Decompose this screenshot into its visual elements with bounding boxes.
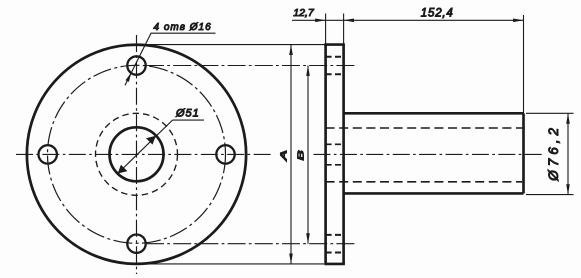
flange bottom edge — [324, 263, 345, 266]
flange side view right edge — [342, 45, 345, 264]
extension line shaft right top — [523, 15, 525, 113]
horizontal main centerline (right part through side view) — [314, 153, 544, 155]
leader Ø51 arrowhead upper right — [146, 136, 156, 145]
bolt hole right — [216, 145, 234, 163]
svg-text:4 отв Ø16: 4 отв Ø16 — [154, 22, 212, 33]
dimension 152.4 arrows — [344, 19, 524, 23]
center hole Ø51 — [110, 127, 164, 181]
dimension Ø76.2 arrows — [566, 113, 570, 194]
bolt circle (dash-dot) — [48, 65, 226, 243]
extension line shaft top right — [526, 112, 574, 114]
hidden shaft circle Ø76.2 (dashed) — [96, 113, 178, 195]
dimension A arrows — [289, 45, 293, 264]
shaft bottom edge — [344, 192, 524, 195]
leader Ø51: shelf — [173, 119, 205, 121]
extension line flange left top — [325, 14, 327, 45]
bolt hole bottom — [127, 235, 145, 253]
dimension A line — [290, 45, 292, 264]
dimension B line — [307, 66, 309, 244]
leader 4 holes: arrowhead — [126, 72, 132, 82]
flange top edge — [324, 43, 345, 46]
leader Ø51: diagonal diameter line — [118, 120, 173, 174]
bottom hole centerline extending to side view — [146, 243, 356, 245]
leader 4 holes: shelf — [151, 32, 216, 34]
top hole centerline extending to side view — [146, 65, 356, 67]
leader Ø51 arrowhead lower left — [118, 165, 128, 174]
dimension 152.4 line — [344, 19, 524, 21]
svg-text:Ø51: Ø51 — [175, 108, 200, 120]
projection line bottom tangent — [150, 263, 324, 265]
svg-text:152,4: 152,4 — [421, 7, 454, 19]
dimension 12.7 line — [292, 19, 344, 21]
leader 4 holes: diagonal — [125, 33, 151, 85]
extension line flange right top — [343, 14, 345, 45]
extension line shaft bottom right — [526, 194, 574, 196]
hidden bolt hole lines (bottom pair) — [326, 235, 344, 253]
flange side view left edge — [324, 45, 327, 264]
horizontal main centerline (left of letters A,B) — [16, 153, 272, 155]
svg-text:A: A — [279, 150, 288, 162]
svg-text:Ø76,2: Ø76,2 — [546, 124, 561, 182]
bolt hole left — [39, 145, 57, 163]
projection line top tangent — [140, 44, 326, 46]
svg-text:B: B — [296, 149, 305, 160]
hidden bolt hole lines (top pair) — [326, 57, 344, 75]
outer flange circle — [27, 45, 246, 264]
dimension 12.7 left arrow (outside, pointing right) — [315, 19, 325, 23]
shaft right edge — [522, 113, 525, 193]
dimension B arrows — [306, 66, 310, 244]
shaft top edge — [344, 112, 524, 115]
vertical main centerline — [136, 35, 138, 274]
bolt hole top — [127, 56, 145, 74]
hidden center hole lines through flange and shaft — [326, 128, 523, 182]
hidden lines inside flange (small bore) — [326, 144, 344, 165]
dimension Ø76.2 line — [567, 113, 569, 194]
svg-text:12,7: 12,7 — [293, 7, 315, 19]
